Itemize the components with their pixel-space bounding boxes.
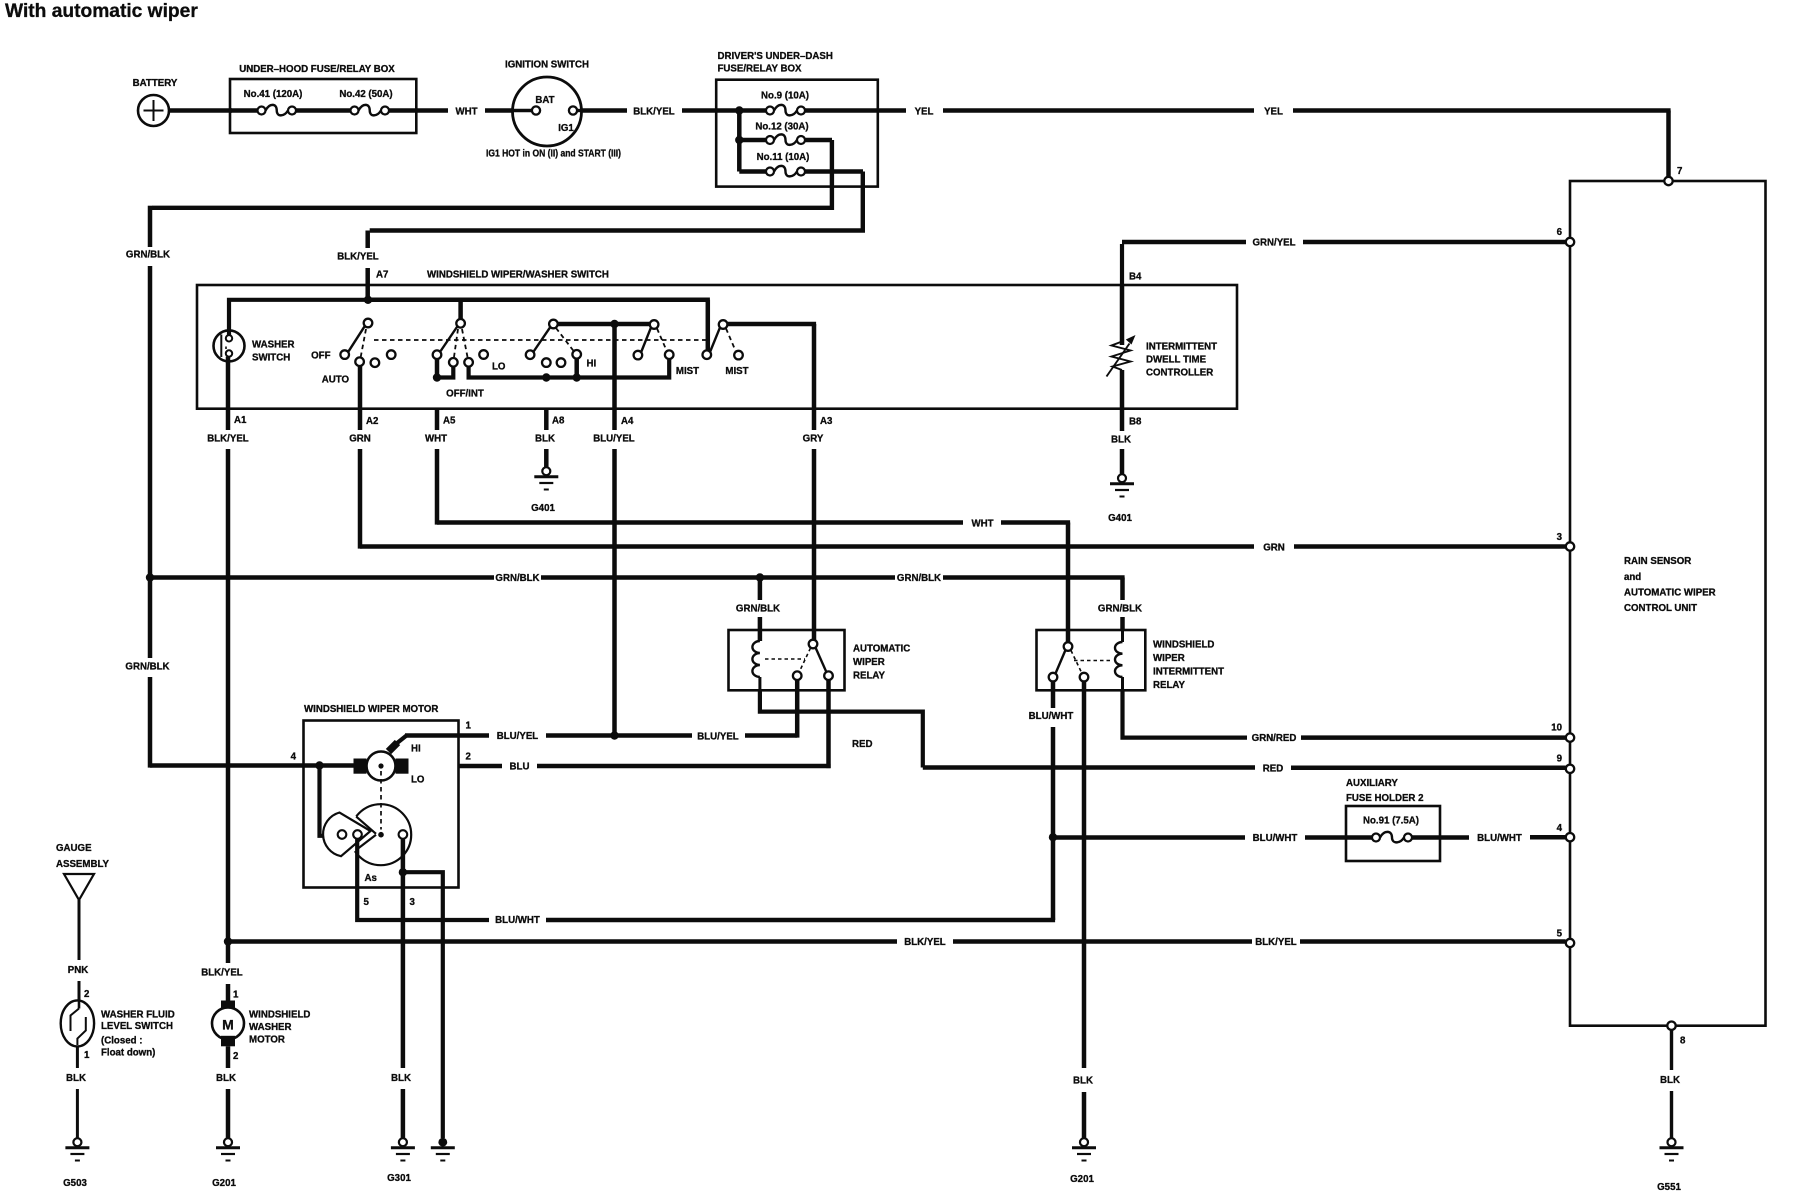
wire relay coil to RED line <box>760 690 923 767</box>
park switch contact b <box>353 830 362 839</box>
svg-text:3: 3 <box>410 897 416 908</box>
pin 1 label <box>466 721 472 732</box>
title "With automatic wiper" <box>5 1 198 22</box>
svg-text:G401: G401 <box>1108 513 1132 524</box>
automatic wiper relay contact 1 <box>793 671 802 680</box>
pin 1 label fluid switch <box>84 1050 90 1061</box>
fuse No.9 (10A) <box>761 91 809 116</box>
contact LO spare <box>479 350 506 372</box>
svg-text:OFF: OFF <box>311 351 330 362</box>
pin 3 label <box>410 897 416 908</box>
intermittent relay dashed parts <box>1071 651 1113 674</box>
svg-text:G503: G503 <box>63 1178 87 1189</box>
wire LO/HI pivot rail to A4 <box>558 322 654 327</box>
svg-text:10: 10 <box>1551 723 1562 734</box>
svg-text:LO: LO <box>492 362 506 373</box>
svg-text:7: 7 <box>1677 166 1682 177</box>
svg-text:DWELL TIME: DWELL TIME <box>1146 355 1207 366</box>
svg-text:PNK: PNK <box>68 965 88 976</box>
wire BLU/WHT motor pin 5 to relay contact <box>357 837 1055 926</box>
svg-text:WASHER: WASHER <box>249 1022 292 1033</box>
wire relay contact 1 to BLU/YEL <box>795 680 800 738</box>
ground G551 <box>1657 1138 1683 1193</box>
svg-text:BLK/YEL: BLK/YEL <box>633 107 675 118</box>
svg-text:RELAY: RELAY <box>853 671 885 682</box>
wire contact OFF/INT to A5 <box>437 359 453 378</box>
battery <box>133 78 178 126</box>
svg-text:WASHER: WASHER <box>252 340 295 351</box>
wire MIST 2 pivot rail to A3 <box>727 324 816 407</box>
svg-text:2: 2 <box>466 752 471 763</box>
svg-text:BLK/YEL: BLK/YEL <box>1255 937 1297 948</box>
wire motor pin 3 to ground <box>391 839 411 1138</box>
automatic wiper relay dashed parts <box>765 648 811 673</box>
contact OFF/INT <box>433 350 484 399</box>
svg-text:Float down): Float down) <box>101 1048 155 1059</box>
svg-text:BLK: BLK <box>1660 1075 1680 1086</box>
svg-text:BLK: BLK <box>391 1073 411 1084</box>
svg-text:No.91 (7.5A): No.91 (7.5A) <box>1363 816 1419 827</box>
wire BLK/YEL to rain sensor terminal 5 <box>228 937 1566 948</box>
automatic wiper relay box <box>729 630 911 690</box>
svg-text:SWITCH: SWITCH <box>252 353 290 364</box>
svg-text:BATTERY: BATTERY <box>133 78 178 89</box>
svg-text:RELAY: RELAY <box>1153 680 1185 691</box>
dashed coupling line <box>374 339 706 341</box>
junction A4 top <box>610 320 618 328</box>
park switch contact c <box>399 830 408 839</box>
driver's under-dash fuse/relay box <box>716 51 878 187</box>
wire motor HI brush to pin 1 <box>397 736 459 744</box>
svg-text:GRN/BLK: GRN/BLK <box>897 573 941 584</box>
svg-text:IG1: IG1 <box>558 123 574 134</box>
svg-text:BLU/WHT: BLU/WHT <box>1477 833 1522 844</box>
junction under-dash bus top <box>735 106 743 114</box>
svg-text:G201: G201 <box>1070 1174 1094 1185</box>
svg-text:WINDSHIELD WIPER MOTOR: WINDSHIELD WIPER MOTOR <box>304 704 438 715</box>
svg-text:No.11 (10A): No.11 (10A) <box>757 152 810 163</box>
ground G301 <box>387 1138 415 1184</box>
wire intermittent relay contact 1 BLU/WHT <box>1029 681 1074 839</box>
wire ignition to under-dash box, BLK/YEL <box>582 107 717 118</box>
terminal 6 <box>1557 227 1575 246</box>
washer fluid level switch <box>61 1000 175 1058</box>
ground G401 at A8 <box>531 467 558 514</box>
terminal 7 <box>1664 166 1682 185</box>
svg-text:A7: A7 <box>376 270 388 281</box>
svg-text:G401: G401 <box>531 503 555 514</box>
rain sensor and automatic wiper control unit box <box>1570 181 1766 1026</box>
wire battery to under-hood fuse box <box>169 108 232 113</box>
svg-text:G201: G201 <box>212 1178 236 1189</box>
svg-text:WIPER: WIPER <box>1153 653 1185 664</box>
junction HI rail <box>573 373 581 381</box>
svg-text:AUXILIARY: AUXILIARY <box>1346 778 1398 789</box>
pin 4 label <box>291 752 297 763</box>
ignition switch IG1 terminal <box>569 106 582 114</box>
junction motor pin 4 <box>315 761 323 769</box>
junction GRN/BLK left at GRN/BLK line <box>146 573 154 581</box>
terminal 9 <box>1557 754 1575 774</box>
svg-text:AUTO: AUTO <box>322 375 350 386</box>
park switch contact a <box>338 830 347 839</box>
svg-text:BLK/YEL: BLK/YEL <box>201 968 243 979</box>
automatic wiper relay arm <box>816 648 827 673</box>
contact MIST 2 feed <box>703 350 712 359</box>
svg-text:GRY: GRY <box>803 434 824 445</box>
svg-text:MIST: MIST <box>676 366 699 377</box>
svg-text:GAUGE: GAUGE <box>56 843 92 854</box>
ground G201 at intermittent relay <box>1070 1138 1096 1185</box>
svg-text:BAT: BAT <box>535 95 554 106</box>
switch arm MIST 1 <box>641 328 651 352</box>
svg-text:MIST: MIST <box>725 366 748 377</box>
svg-text:YEL: YEL <box>915 107 934 118</box>
wire A3 GRY to automatic wiper relay <box>803 407 824 642</box>
pin A8 label <box>552 416 565 427</box>
terminal 5 <box>1557 929 1575 948</box>
pin A5 label <box>443 416 456 427</box>
windshield washer motor <box>212 1001 310 1047</box>
junction GRN/BLK at automatic wiper relay <box>756 573 764 581</box>
switch pivot MIST 1 <box>650 320 659 329</box>
fuse No.12 (30A) <box>755 122 808 145</box>
svg-text:BLK: BLK <box>66 1073 86 1084</box>
svg-text:WHT: WHT <box>971 519 993 530</box>
dashed arms OFF/INT <box>454 329 468 357</box>
wire BLU/WHT junction to fuse holder <box>1053 833 1372 844</box>
svg-text:GRN/BLK: GRN/BLK <box>736 604 780 615</box>
svg-text:YEL: YEL <box>1264 107 1283 118</box>
svg-text:GRN: GRN <box>1263 543 1285 554</box>
contact LO <box>526 350 535 359</box>
wire intermittent relay contact 2 to ground <box>1073 681 1093 1138</box>
svg-text:BLU/WHT: BLU/WHT <box>1029 711 1074 722</box>
svg-text:and: and <box>1624 572 1641 583</box>
svg-text:5: 5 <box>364 897 370 908</box>
ignition switch <box>505 60 589 147</box>
wire fuse box to ignition switch, WHT <box>389 107 532 118</box>
dashed arm to AUTO <box>361 329 366 357</box>
svg-text:M: M <box>222 1017 234 1033</box>
wire B4 GRN/YEL drop <box>1122 244 1142 286</box>
svg-text:1: 1 <box>84 1050 90 1061</box>
svg-text:IGNITION SWITCH: IGNITION SWITCH <box>505 60 589 71</box>
contact mid 1 <box>542 358 551 367</box>
pin 5 label <box>364 897 370 908</box>
wire relay contact 2 to BLU <box>826 680 831 768</box>
terminal 3 <box>1557 532 1575 551</box>
svg-text:LO: LO <box>411 775 425 786</box>
wire BLU motor pin 2 to relay <box>459 762 831 773</box>
svg-text:3: 3 <box>1557 532 1563 543</box>
svg-text:INTERMITTENT: INTERMITTENT <box>1153 667 1224 678</box>
under-dash bus wire <box>716 111 766 172</box>
dashed arm MIST 1 <box>657 329 667 352</box>
switch pivot OFF/AUTO <box>364 319 373 328</box>
svg-text:BLK/YEL: BLK/YEL <box>207 434 249 445</box>
svg-text:DRIVER'S UNDER–DASH: DRIVER'S UNDER–DASH <box>718 51 833 62</box>
svg-text:BLU/YEL: BLU/YEL <box>697 732 739 743</box>
svg-text:BLU: BLU <box>510 762 530 773</box>
terminal 8 <box>1667 1021 1686 1046</box>
pin A3 label <box>820 416 833 427</box>
intermittent relay contact 1 <box>1049 673 1058 682</box>
wire BLU/YEL motor pin 1 to relay <box>459 731 798 743</box>
svg-text:RED: RED <box>852 739 872 750</box>
wire switch bottom rail <box>469 359 670 378</box>
contact OFF/INT c <box>464 358 473 367</box>
intermittent dwell time controller variable resistor <box>1107 286 1218 409</box>
node A7 junction <box>364 296 372 304</box>
fuse No.91 (7.5A) <box>1363 816 1419 843</box>
contact MIST 1 right <box>665 350 699 377</box>
svg-text:INTERMITTENT: INTERMITTENT <box>1146 342 1217 353</box>
svg-text:CONTROL UNIT: CONTROL UNIT <box>1624 603 1697 614</box>
svg-text:WIPER: WIPER <box>853 657 885 668</box>
washer switch <box>214 330 295 363</box>
svg-text:2: 2 <box>233 1051 238 1062</box>
svg-text:HI: HI <box>587 359 597 370</box>
svg-text:GRN/BLK: GRN/BLK <box>126 250 170 261</box>
switch arm OFF/AUTO <box>348 326 365 352</box>
wire washer motor BLK to ground <box>216 1046 236 1138</box>
pin A7 label <box>376 270 388 281</box>
svg-text:4: 4 <box>1557 823 1563 834</box>
wire HI contact to rail <box>574 359 579 378</box>
svg-text:BLK: BLK <box>1111 435 1131 446</box>
svg-text:BLU/YEL: BLU/YEL <box>497 731 539 742</box>
junction under-dash bus middle <box>735 136 743 144</box>
switch pivot MIST 2 <box>719 320 728 329</box>
wire GRN/BLK into motor pin 4 <box>150 763 357 768</box>
svg-text:No.41 (120A): No.41 (120A) <box>244 89 303 100</box>
svg-text:A2: A2 <box>366 416 378 427</box>
svg-text:B8: B8 <box>1129 417 1142 428</box>
wire motor pin 3 branch to ground <box>403 872 443 1138</box>
terminal 4 <box>1557 823 1575 841</box>
wire fuse No.11 output to BLK/YEL feed <box>370 172 863 231</box>
wire YEL fuse No.9 to rain sensor terminal 7 <box>878 107 1671 178</box>
svg-text:A5: A5 <box>443 416 456 427</box>
terminal 10 <box>1551 723 1574 742</box>
svg-text:BLU/WHT: BLU/WHT <box>1253 833 1298 844</box>
wire fuse No.12 output to GRN/BLK feed <box>152 140 832 208</box>
svg-text:(Closed :: (Closed : <box>101 1036 142 1047</box>
pin 2 label fluid switch <box>84 989 89 1000</box>
svg-text:G551: G551 <box>1657 1182 1681 1193</box>
intermittent relay pivot <box>1064 642 1073 651</box>
svg-text:BLK: BLK <box>1073 1076 1093 1087</box>
junction motor pin 3 <box>399 868 407 876</box>
contact MIST 2 right <box>725 351 748 377</box>
switch arm MIST 2 <box>710 328 720 352</box>
contact OFF/INT b <box>449 358 458 367</box>
svg-text:BLK/YEL: BLK/YEL <box>337 252 379 263</box>
svg-text:G301: G301 <box>387 1173 411 1184</box>
svg-text:A4: A4 <box>621 416 634 427</box>
wiper motor park switch plate <box>323 771 411 884</box>
wire A7 rail drop to OFF/INT pivot <box>458 300 463 319</box>
svg-text:CONTROLLER: CONTROLLER <box>1146 368 1213 379</box>
svg-text:6: 6 <box>1557 227 1563 238</box>
wire A2 GRN to rain sensor terminal 3 <box>349 366 1565 554</box>
svg-text:BLU/WHT: BLU/WHT <box>495 915 540 926</box>
pin 2 label washer motor <box>233 1051 238 1062</box>
svg-text:RED: RED <box>1263 764 1283 775</box>
dashed arm MIST 2 <box>726 329 736 352</box>
contact spare 1 <box>371 358 380 367</box>
wire BLK/YEL fuse No.11 to switch A7 <box>337 231 379 302</box>
contact MIST 1 left <box>634 351 643 360</box>
wire B8 BLK to ground <box>1111 409 1131 474</box>
intermittent relay coil <box>1115 630 1123 690</box>
wire GRN/BLK to relays <box>150 573 1142 630</box>
svg-text:OFF/INT: OFF/INT <box>446 389 484 400</box>
dashed arm HI <box>556 328 574 352</box>
wire into fuse No.41 <box>230 108 258 113</box>
intermittent relay arm <box>1056 650 1066 674</box>
contact AUTO <box>322 357 364 385</box>
svg-text:With automatic wiper: With automatic wiper <box>5 1 198 22</box>
wire A4 BLU/YEL to motor pin 1 line <box>593 324 635 736</box>
svg-text:WINDSHIELD: WINDSHIELD <box>249 1010 310 1021</box>
junction A8 rail <box>542 373 550 381</box>
wire washer switch to A7 rail <box>229 300 366 335</box>
automatic wiper relay contact 2 <box>824 671 833 680</box>
pin B8 label <box>1129 417 1142 428</box>
svg-text:GRN/YEL: GRN/YEL <box>1252 238 1295 249</box>
wire A8 BLK to ground <box>535 409 555 467</box>
gauge assembly connector <box>56 843 109 900</box>
wire A5 WHT to intermittent relay <box>425 409 1070 643</box>
svg-text:FUSE HOLDER 2: FUSE HOLDER 2 <box>1346 793 1424 804</box>
svg-text:1: 1 <box>466 721 472 732</box>
switch arm LO <box>533 327 550 352</box>
ground G201 at washer motor <box>212 1138 240 1189</box>
svg-text:LEVEL SWITCH: LEVEL SWITCH <box>101 1021 173 1032</box>
pin 1 label washer motor <box>233 990 239 1001</box>
svg-text:WASHER FLUID: WASHER FLUID <box>101 1010 175 1021</box>
svg-text:2: 2 <box>84 989 89 1000</box>
svg-text:9: 9 <box>1557 754 1563 765</box>
svg-text:A3: A3 <box>820 416 833 427</box>
wire BLU/WHT fuse to rain sensor terminal 4 <box>1412 833 1566 844</box>
svg-text:HI: HI <box>411 744 421 755</box>
switch arm OFF/INT <box>440 327 457 352</box>
note IG1 HOT in ON (II) and START (III) <box>486 149 621 160</box>
wire GRN/BLK drop to relay coil <box>736 578 780 642</box>
fuse No.11 (10A) <box>757 152 810 176</box>
automatic wiper relay pivot <box>809 640 818 649</box>
auxiliary fuse holder 2 box <box>1346 778 1440 861</box>
wire terminal 8 BLK to ground <box>1660 1030 1680 1138</box>
svg-text:GRN/BLK: GRN/BLK <box>125 662 169 673</box>
svg-text:B4: B4 <box>1129 272 1142 283</box>
svg-text:4: 4 <box>291 752 297 763</box>
windshield wiper intermittent relay box <box>1037 630 1225 691</box>
svg-text:ASSEMBLY: ASSEMBLY <box>56 859 109 870</box>
wire fuse No.41 to fuse No.42 <box>296 108 351 113</box>
svg-text:BLK/YEL: BLK/YEL <box>904 937 946 948</box>
automatic wiper relay coil <box>752 630 760 690</box>
pin A1 label <box>234 415 247 426</box>
wire A7 rail to MIST contact <box>368 300 710 351</box>
junction A5 <box>433 373 441 381</box>
svg-text:GRN/BLK: GRN/BLK <box>495 573 539 584</box>
pin 2 label <box>466 752 471 763</box>
svg-text:MOTOR: MOTOR <box>249 1035 285 1046</box>
svg-text:WINDSHIELD WIPER/WASHER SWITCH: WINDSHIELD WIPER/WASHER SWITCH <box>427 270 609 281</box>
ignition switch BAT terminal <box>513 106 540 114</box>
fuse No.41 (120A) <box>244 89 303 115</box>
svg-text:GRN/RED: GRN/RED <box>1252 733 1297 744</box>
wire GRN/RED coil to rain sensor terminal 10 <box>1123 690 1566 744</box>
svg-text:AUTOMATIC WIPER: AUTOMATIC WIPER <box>1624 588 1716 599</box>
wire fuse No.9 output <box>805 108 878 113</box>
wire RED to rain sensor terminal 9 <box>923 764 1566 775</box>
wire motor pin 4 to park switch <box>320 766 338 836</box>
svg-text:BLK: BLK <box>216 1073 236 1084</box>
wire gauge assembly PNK to fluid switch <box>68 900 88 1001</box>
svg-text:IG1 HOT in ON (II) and START (: IG1 HOT in ON (II) and START (III) <box>486 149 621 160</box>
svg-text:5: 5 <box>1557 929 1563 940</box>
wire GRN/YEL to rain sensor terminal 6 <box>1122 238 1566 249</box>
svg-text:No.42 (50A): No.42 (50A) <box>339 89 392 100</box>
wire A1 BLK/YEL washer switch to washer motor <box>201 357 249 1002</box>
svg-text:No.12 (30A): No.12 (30A) <box>755 122 808 133</box>
svg-text:A8: A8 <box>552 416 565 427</box>
svg-text:A1: A1 <box>234 415 247 426</box>
wire fluid switch BLK to ground <box>66 1046 86 1139</box>
svg-text:WHT: WHT <box>425 434 447 445</box>
svg-text:WINDSHIELD: WINDSHIELD <box>1153 640 1214 651</box>
junction BLU/YEL at A4 <box>610 731 618 739</box>
svg-text:8: 8 <box>1680 1036 1686 1047</box>
svg-text:AUTOMATIC: AUTOMATIC <box>853 644 910 655</box>
ground at pin 3 branch <box>431 1138 455 1161</box>
svg-text:No.9 (10A): No.9 (10A) <box>761 91 809 102</box>
svg-text:BLU/YEL: BLU/YEL <box>593 434 635 445</box>
pin A2 label <box>366 416 378 427</box>
pin A4 label <box>621 416 634 427</box>
svg-text:UNDER–HOOD FUSE/RELAY BOX: UNDER–HOOD FUSE/RELAY BOX <box>239 64 395 75</box>
contact HI <box>572 350 596 370</box>
svg-text:BLK: BLK <box>535 434 555 445</box>
intermittent relay contact 2 <box>1080 673 1089 682</box>
wiper motor armature <box>354 743 425 786</box>
windshield wiper motor box <box>304 704 459 888</box>
svg-text:As: As <box>365 873 377 884</box>
svg-text:GRN/BLK: GRN/BLK <box>1098 604 1142 615</box>
junction BLU/WHT <box>1049 833 1057 841</box>
under-hood fuse/relay box <box>230 64 416 133</box>
svg-text:RAIN SENSOR: RAIN SENSOR <box>1624 556 1691 567</box>
ground G401 at B8 <box>1108 474 1134 524</box>
fuse No.42 (50A) <box>339 89 392 115</box>
svg-text:1: 1 <box>233 990 239 1001</box>
contact spare 2 <box>387 350 396 359</box>
junction BLK/YEL at washer motor <box>224 937 232 945</box>
contact OFF <box>311 350 349 361</box>
svg-text:WHT: WHT <box>455 107 477 118</box>
ground G503 <box>63 1138 89 1189</box>
svg-text:FUSE/RELAY BOX: FUSE/RELAY BOX <box>718 64 803 75</box>
windshield wiper/washer switch box <box>197 270 1237 409</box>
contact mid 2 <box>557 358 566 367</box>
wire GRN/BLK left vertical from fuse No.12 <box>125 206 170 768</box>
switch pivot OFF/INT <box>456 319 465 328</box>
